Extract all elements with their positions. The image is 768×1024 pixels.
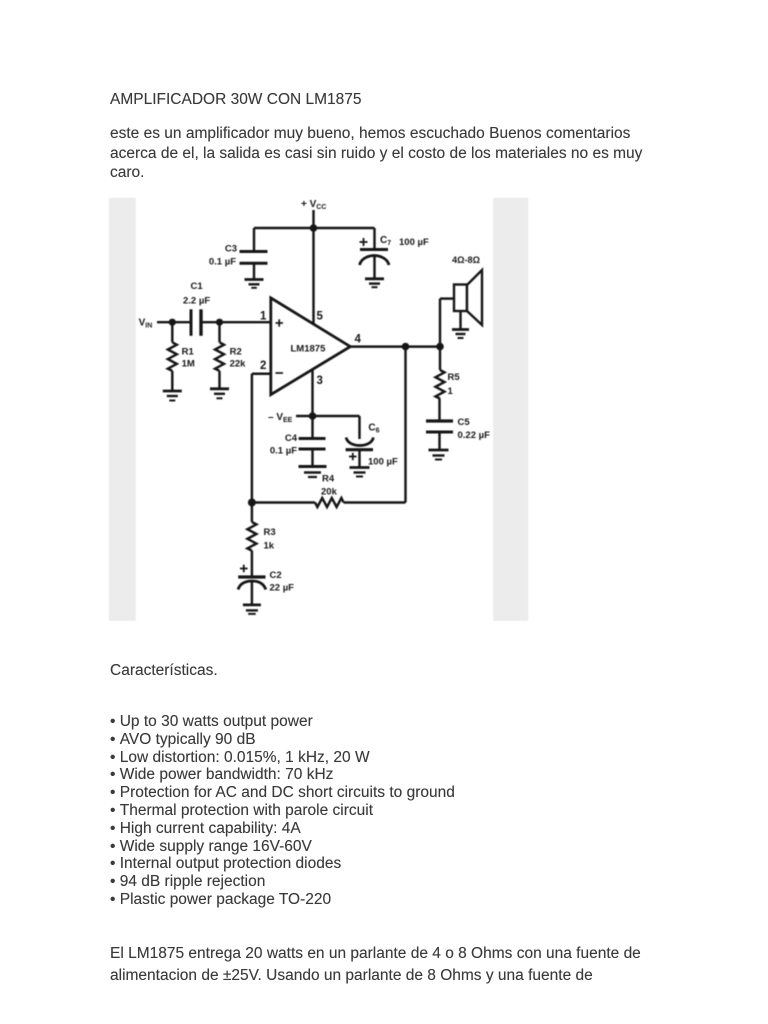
svg-text:C7: C7 [380,235,391,247]
node R2 junction [216,319,223,326]
ground C4 [299,467,327,478]
svg-text:R3: R3 [264,527,276,538]
svg-text:R4: R4 [322,474,335,485]
capacitor C4 [270,416,326,467]
svg-text:+ VCC: + VCC [301,199,326,211]
svg-text:0.1 µF: 0.1 µF [270,446,297,457]
svg-text:C1: C1 [191,281,204,292]
svg-text:C5: C5 [458,417,471,428]
svg-text:4Ω-8Ω: 4Ω-8Ω [452,255,480,265]
svg-text:1: 1 [448,386,454,397]
svg-text:22k: 22k [230,359,247,370]
ground speaker [452,330,469,339]
node feedback junction [248,499,256,507]
svg-text:22 µF: 22 µF [270,583,295,594]
resistor R2 [215,322,246,389]
ground C7 [365,279,384,287]
wire input [157,321,191,323]
intro paragraph [110,124,642,182]
title [110,92,362,108]
svg-text:20k: 20k [321,487,338,498]
wire -VEE [296,415,360,417]
capacitor C7 [360,228,429,279]
svg-text:R1: R1 [182,347,195,358]
svg-text:– VEE: – VEE [268,412,293,424]
resistor R4 [315,474,344,508]
ground R2 [210,389,229,399]
wire VCC stub [312,210,314,228]
svg-text:C4: C4 [285,433,298,444]
resistor R1 [168,322,195,391]
op-amp U1 LM1875 [271,298,351,395]
node output feedback [402,343,410,351]
capacitor C3 [209,228,268,280]
svg-text:5: 5 [317,310,324,322]
svg-text:2: 2 [260,360,266,372]
svg-text:100 µF: 100 µF [368,457,398,468]
capacitor C5 [426,417,490,450]
capacitor C2 [238,565,294,605]
svg-text:1M: 1M [182,359,195,370]
wire inverting drop [251,374,253,503]
speaker LS1 [440,255,482,347]
wire pin 3 [311,369,313,416]
svg-text:1k: 1k [264,541,275,552]
svg-text:3: 3 [317,375,323,387]
capacitor C1 [183,281,210,336]
node input junction [169,319,176,326]
svg-text:LM1875: LM1875 [291,344,327,355]
section heading [110,663,218,679]
svg-text:C2: C2 [270,570,282,581]
ground R1 [163,391,182,401]
net -VEE [268,412,293,424]
ground C2 [243,605,261,614]
wire feedback bottom right [344,501,406,503]
svg-text:C6: C6 [368,423,379,435]
capacitor C6 [346,416,398,468]
net VIN [139,318,153,330]
wire top rail [254,227,375,230]
net +VCC [301,199,326,211]
svg-text:4: 4 [355,333,362,345]
wire pin 5 [312,228,314,324]
node output zobel [436,343,444,351]
feature bullet list [110,713,455,909]
svg-text:VIN: VIN [139,318,153,330]
svg-text:C3: C3 [225,244,237,255]
svg-text:0.22 µF: 0.22 µF [458,430,491,441]
svg-text:100 µF: 100 µF [399,237,429,248]
ground C5 [429,450,449,460]
wire feedback bottom left [252,501,315,503]
svg-text:R5: R5 [448,372,461,383]
ground C3 [245,280,264,288]
ground C6 [350,468,370,477]
wire feedback drop [404,347,406,503]
resistor R5 [436,347,461,421]
svg-text:0.1 µF: 0.1 µF [209,257,236,268]
resistor R3 [247,503,275,578]
node -VEE junction [309,412,317,420]
svg-text:1: 1 [260,310,267,322]
wire pin 2 stub [252,373,271,375]
svg-text:R2: R2 [230,347,242,358]
wire output [350,345,440,347]
node VCC junction [310,224,318,232]
svg-text:2.2 µF: 2.2 µF [183,296,210,307]
wire C1 to pin 1 [201,321,271,323]
closing paragraph [110,943,641,987]
